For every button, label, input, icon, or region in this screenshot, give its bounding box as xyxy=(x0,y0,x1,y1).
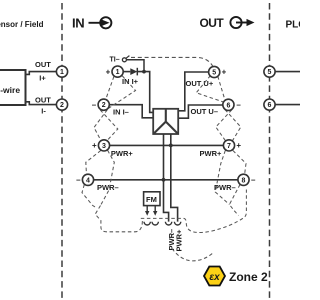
svg-text:Sensor / Field: Sensor / Field xyxy=(0,20,44,29)
svg-text:OUT: OUT xyxy=(35,96,51,105)
svg-text:–: – xyxy=(236,101,241,110)
svg-text:OUT U–: OUT U– xyxy=(191,107,219,116)
svg-text:+: + xyxy=(106,67,111,76)
svg-text:1: 1 xyxy=(60,69,64,76)
svg-text:5: 5 xyxy=(268,69,272,76)
svg-text:4: 4 xyxy=(86,177,90,184)
svg-text:PWR+: PWR+ xyxy=(200,149,222,158)
svg-text:7: 7 xyxy=(227,143,231,150)
svg-text:5: 5 xyxy=(212,70,216,77)
svg-text:FM: FM xyxy=(146,195,157,204)
svg-text:3: 3 xyxy=(102,143,106,150)
svg-text:–: – xyxy=(92,100,97,109)
svg-text:PWR–: PWR– xyxy=(97,183,119,192)
svg-text:OUT U+: OUT U+ xyxy=(186,79,214,88)
svg-text:PWR–: PWR– xyxy=(214,183,236,192)
svg-text:IN I–: IN I– xyxy=(113,108,129,117)
svg-text:–: – xyxy=(76,176,81,185)
svg-text:2: 2 xyxy=(102,102,106,109)
svg-text:PWR+: PWR+ xyxy=(111,149,133,158)
svg-text:OUT: OUT xyxy=(200,16,225,30)
svg-text:TI–: TI– xyxy=(110,57,120,64)
svg-text:I-: I- xyxy=(41,106,46,115)
svg-text:1: 1 xyxy=(116,69,120,76)
svg-text:Zone 2: Zone 2 xyxy=(229,270,268,284)
svg-text:IN: IN xyxy=(72,16,84,31)
svg-text:PWR+: PWR+ xyxy=(174,229,183,251)
svg-text:OUT: OUT xyxy=(35,60,51,69)
svg-text:+: + xyxy=(92,141,97,150)
svg-text:+: + xyxy=(236,141,241,150)
svg-text:6: 6 xyxy=(268,102,272,109)
svg-text:8: 8 xyxy=(242,177,246,184)
svg-text:εx: εx xyxy=(209,272,220,283)
svg-text:+: + xyxy=(222,68,227,77)
svg-text:6: 6 xyxy=(226,102,230,109)
svg-text:2-wire: 2-wire xyxy=(0,85,20,95)
svg-text:–: – xyxy=(251,176,256,185)
svg-text:I+: I+ xyxy=(39,74,46,83)
svg-text:PLC: PLC xyxy=(286,20,301,31)
svg-text:2: 2 xyxy=(60,102,64,109)
